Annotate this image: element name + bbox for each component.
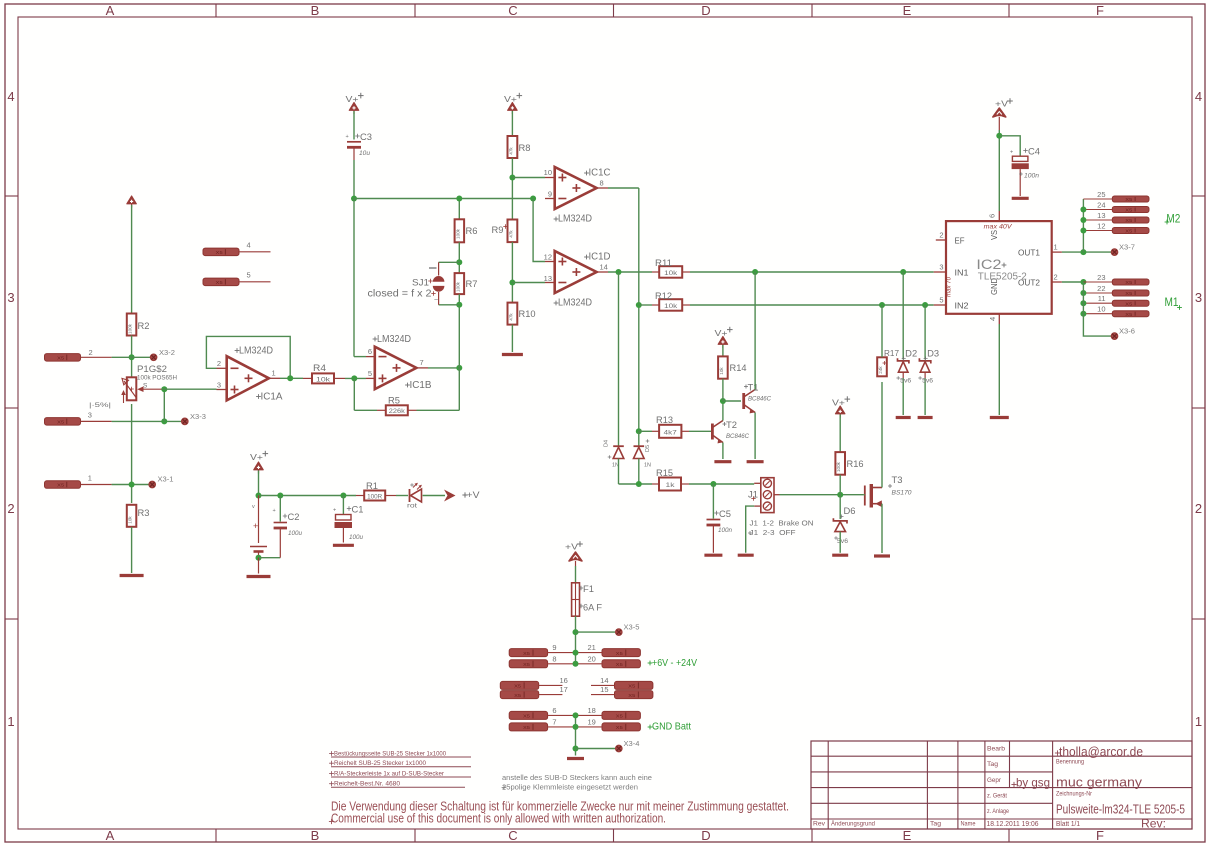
svg-text:100k POS65H: 100k POS65H [137,376,177,382]
svg-text:X3-6: X3-6 [1119,329,1135,336]
svg-text:2: 2 [89,348,93,357]
svg-text:2: 2 [217,359,221,368]
ground [990,416,1009,419]
svg-text:X5: X5 [57,356,64,362]
wire [575,566,577,583]
svg-text:9: 9 [548,190,552,199]
svg-text:24k: 24k [878,366,883,374]
wire [259,495,357,497]
connector pads X5 pins 7/19 [509,717,640,731]
svg-text:LM324D: LM324D [558,214,592,225]
potentiometer P1G$2 [89,364,177,409]
junction [456,259,462,265]
resistor R14 [718,356,746,378]
ground [704,554,722,557]
svg-text:T1: T1 [748,383,759,393]
svg-text:X5: X5 [1125,312,1132,318]
junction [573,746,579,752]
wire [618,459,620,485]
svg-text:A: A [106,828,115,843]
svg-text:X5: X5 [1125,301,1132,307]
connector pad X5 pin 13 [1083,211,1149,224]
svg-text:V+: V+ [715,328,728,338]
svg-text:C2: C2 [288,512,300,522]
svg-text:100k: 100k [455,228,460,239]
wire [881,305,883,357]
junction [616,269,622,275]
wire [280,377,303,379]
transistor T2 [712,420,749,443]
junction [636,428,642,434]
power symbol V+ (R8 rail) [504,93,522,114]
junction [573,661,579,667]
zener diode D2 [896,272,917,415]
svg-text:1: 1 [1195,714,1202,729]
connector pads X5 pins 16/14 [500,676,653,690]
connector pad X5 pin 4 [203,241,271,257]
svg-text:by gsg: by gsg [1016,776,1050,790]
wire [864,494,865,496]
resistor R15 [652,468,689,491]
power symbol +V (fuse rail) [565,541,583,561]
svg-text:47k: 47k [508,313,513,321]
wire [998,324,1000,415]
svg-text:VS: VS [990,230,999,240]
junction [720,398,726,404]
svg-text:X5: X5 [616,651,623,657]
connector pad X5 pin 5 [203,271,271,287]
wire [689,430,712,432]
resistor R10 [508,303,536,325]
wire [163,389,165,421]
wire [458,368,460,410]
svg-text:X5: X5 [628,684,635,690]
wire [428,367,459,369]
svg-text:22: 22 [1097,284,1105,293]
svg-text:16: 16 [560,676,568,685]
wire [881,504,883,553]
wire [131,205,133,314]
svg-text:6: 6 [552,706,556,715]
svg-text:1: 1 [272,369,276,378]
svg-text:7: 7 [552,717,556,726]
power symbol V+ (C3 rail) [346,93,364,114]
junction [129,482,135,488]
svg-text:10k: 10k [128,516,133,524]
svg-text:+: + [253,521,258,531]
wire [354,356,366,358]
svg-text:100k: 100k [455,281,460,292]
svg-text:Änderungsgrund: Änderungsgrund [831,820,875,828]
svg-text:X5: X5 [514,693,521,699]
junction [277,493,283,499]
capacitor C4 [1010,147,1040,197]
svg-text:R11: R11 [655,258,672,268]
capacitor C5 [707,509,733,553]
junction [509,175,515,181]
wire [1062,281,1084,283]
junction [509,280,515,286]
svg-text:100n: 100n [718,528,733,534]
svg-text:12: 12 [1097,222,1105,231]
svg-text:OUT2: OUT2 [1018,279,1041,288]
wire [423,495,445,497]
wire [575,561,577,566]
svg-text:3: 3 [217,381,221,390]
svg-text:10u: 10u [359,151,371,157]
note J1 jumper table [748,519,814,538]
svg-text:X5: X5 [1125,229,1132,235]
junction [256,493,262,499]
net stub X3-2 [150,350,175,360]
svg-text:IC1B: IC1B [410,380,432,391]
connector pad X5 pin 12 [1083,222,1149,235]
svg-text:25polige Klemmleiste eingesetz: 25polige Klemmleiste eingesetzt werden [502,783,638,792]
svg-text:C4: C4 [1028,147,1040,157]
wire [458,294,460,368]
wire [511,325,513,352]
svg-text:IC1D: IC1D [589,252,611,263]
svg-text:Gepr: Gepr [987,777,1002,784]
svg-text:J1 2-3 OFF: J1 2-3 OFF [750,528,796,537]
svg-text:10k: 10k [664,270,678,277]
ground [738,554,754,557]
junction [256,555,262,561]
wire [638,459,640,485]
svg-text:X5: X5 [514,684,521,690]
svg-text:20: 20 [588,654,596,663]
wire [353,160,355,199]
wire [112,484,149,486]
junction [1080,300,1086,306]
svg-text:17: 17 [560,685,568,694]
wire [353,111,355,140]
wire [353,378,355,410]
svg-text:B: B [311,3,320,18]
net stub X3-5 [616,625,640,636]
wire [619,483,653,485]
wire [131,336,133,378]
svg-text:8: 8 [600,179,604,188]
junction [900,269,906,275]
fuse F1 [572,583,603,616]
wire [162,388,217,390]
svg-text:X5: X5 [616,714,623,720]
junction [573,724,579,730]
svg-text:+: + [333,508,336,514]
svg-text:3: 3 [88,411,92,420]
svg-text:v: v [252,504,255,510]
svg-text:GND Batt: GND Batt [652,721,691,733]
svg-text:X5: X5 [523,651,530,657]
svg-text:4: 4 [988,317,997,321]
svg-text:IC2: IC2 [976,257,1001,272]
svg-text:X5: X5 [628,693,635,699]
wire [112,356,151,358]
svg-text:M1: M1 [1165,297,1179,309]
svg-text:rot: rot [407,504,417,510]
svg-text:Bearb: Bearb [987,746,1005,753]
op-amp IC1A [217,346,283,403]
ground [247,575,271,578]
junction [351,196,357,202]
wire [722,379,724,401]
svg-text:OUT1: OUT1 [1018,249,1041,258]
svg-text:T3: T3 [892,475,903,485]
svg-text:R9: R9 [492,225,504,235]
net stub X3-1 [149,477,174,488]
svg-text:X3-1: X3-1 [158,477,174,484]
ground [874,554,890,557]
svg-text:4: 4 [1195,89,1202,104]
wire [608,271,652,273]
svg-text:25: 25 [1097,190,1105,199]
wire [608,187,639,189]
svg-text:X3-7: X3-7 [1119,245,1135,252]
net label GND Batt [648,721,691,733]
junction [573,629,579,635]
junction [456,196,462,202]
wire [458,199,460,220]
svg-text:R8: R8 [519,143,531,153]
svg-text:18: 18 [588,706,596,715]
resistor R13 [652,415,689,438]
svg-text:F1: F1 [583,584,594,594]
svg-text:1: 1 [7,714,14,729]
svg-text:X5: X5 [1125,280,1132,286]
svg-text:R13: R13 [656,415,673,425]
svg-text:X5: X5 [1125,291,1132,297]
svg-text:13: 13 [544,274,552,283]
svg-text:4k7: 4k7 [664,429,677,436]
svg-text:Zeichnungs-Nr: Zeichnungs-Nr [1056,791,1093,798]
svg-text:18.12.2011 19:06: 18.12.2011 19:06 [987,819,1039,828]
connector pad X5 pin 24 [1083,201,1149,214]
svg-text:C: C [508,828,517,843]
svg-text:3: 3 [1195,290,1202,305]
svg-text:IC1C: IC1C [589,168,611,179]
svg-text:tholla@arcor.de: tholla@arcor.de [1059,745,1143,759]
junction [573,650,579,656]
svg-text:5v6: 5v6 [837,538,848,545]
svg-text:X5: X5 [1125,218,1132,224]
LED D1 [396,483,422,510]
zener diode D3 [918,305,939,415]
wire [999,136,1020,156]
svg-text:z. Gerät: z. Gerät [987,793,1007,800]
junction [351,375,357,381]
svg-text:X5: X5 [216,280,223,286]
svg-text:6: 6 [988,214,997,218]
svg-text:V+: V+ [346,94,359,104]
svg-text:LM324D: LM324D [377,334,411,345]
svg-text:+6V - +24V: +6V - +24V [652,657,697,669]
svg-text:X5: X5 [523,662,530,668]
wire [618,272,620,446]
net stub X3-4 [616,741,640,752]
svg-text:R4: R4 [313,363,326,373]
resistor R9 [492,220,518,243]
op-amp IC1B [366,334,432,391]
wire [258,558,260,574]
svg-text:X3-5: X3-5 [624,625,640,632]
wire [354,409,377,411]
junction [1080,279,1086,285]
ground [333,544,354,547]
ground [502,353,523,356]
svg-text:12: 12 [544,253,552,262]
resistor R2 [127,314,150,336]
wire [639,304,652,306]
diode D5 [634,439,652,468]
wire [639,430,652,432]
wire [259,557,281,559]
connector pad X5 pin 2 [45,348,112,362]
svg-text:R1: R1 [366,481,378,491]
wire [722,443,724,460]
svg-text:100u: 100u [288,531,303,537]
svg-text:J1 1-2 Brake ON: J1 1-2 Brake ON [750,519,814,528]
svg-text:R17: R17 [884,349,900,358]
power symbol V+ (battery rail) [250,451,268,474]
svg-text:19: 19 [588,717,596,726]
svg-text:C: C [508,3,517,18]
wire [881,382,883,488]
resistor R1 [356,481,396,501]
wire [511,111,513,136]
svg-text:X5: X5 [216,250,223,256]
transistor T1 [744,383,772,414]
net label M1 [1165,297,1182,310]
svg-text:23: 23 [1097,273,1105,282]
connector pad X5 pin 3 [45,411,112,426]
svg-text:z. Anlage: z. Anlage [987,808,1009,815]
IC U2 TLE5205-2 [934,211,1062,324]
svg-text:Rev: Rev [813,821,826,828]
svg-text:GND: GND [990,278,999,295]
power symbol +V (IC2 rail) [993,98,1013,117]
wire [723,400,741,402]
wire [533,199,545,262]
connector pads X5 pins 8/20 [509,654,640,668]
net arrow +V [444,490,480,502]
wire [576,748,616,750]
svg-text:C5: C5 [719,509,731,519]
svg-text:+: + [1010,150,1013,156]
svg-text:100R: 100R [367,494,383,500]
svg-text:BS170: BS170 [892,491,913,497]
svg-text:10: 10 [1097,305,1105,314]
svg-text:R10: R10 [519,309,536,319]
junction [1080,217,1086,223]
svg-text:D: D [701,828,710,843]
svg-text:Name: Name [961,821,976,828]
svg-text:47k: 47k [508,230,513,238]
junction [922,302,928,308]
junction [340,493,346,499]
svg-text:11: 11 [1098,294,1106,303]
svg-text:V+: V+ [832,398,845,408]
wire [689,483,754,485]
junction [129,354,135,360]
junction [636,302,642,308]
svg-text:10k: 10k [316,376,331,383]
svg-text:X5: X5 [1125,197,1132,203]
svg-text:R12: R12 [655,291,672,301]
svg-text:15: 15 [600,685,608,694]
svg-text:R15: R15 [656,468,673,478]
svg-text:7: 7 [420,358,424,367]
svg-text:4: 4 [247,241,251,250]
wire [690,271,934,273]
junction [1080,311,1086,317]
svg-text:BC846C: BC846C [726,434,750,440]
svg-text:R14: R14 [730,363,747,373]
svg-text:47k: 47k [508,147,513,155]
svg-text:6A F: 6A F [583,603,603,613]
svg-text:100u: 100u [349,535,364,541]
wire [512,177,545,179]
svg-text:X5: X5 [523,714,530,720]
junction [710,481,716,487]
wire [998,117,1000,130]
junction [456,302,462,308]
wire [354,198,533,200]
net label M2 [1165,214,1181,226]
svg-text:P1G$2: P1G$2 [137,364,167,375]
wire [112,420,182,422]
svg-text:21: 21 [588,643,596,652]
svg-text:3: 3 [7,290,14,305]
svg-text:X5: X5 [57,483,64,489]
zener diode D6 [833,506,855,545]
resistor R4 [303,363,345,383]
connector pad X5 pin 25 [1083,190,1149,203]
junction [1080,207,1086,213]
wire [998,130,1000,211]
wire [1062,251,1111,253]
svg-text:Benennung: Benennung [1056,759,1084,766]
wire [754,413,756,460]
svg-text:24: 24 [1097,201,1105,210]
ground [896,416,911,419]
copyright note line 2 [329,812,666,826]
ground [1012,197,1029,200]
svg-text:5v6: 5v6 [922,379,934,385]
svg-text:C1: C1 [352,505,364,515]
junction [879,302,885,308]
wire [638,188,640,431]
svg-text:closed = f x 2: closed = f x 2 [368,289,432,300]
junction [996,133,1002,139]
svg-text:EF: EF [955,237,965,246]
capacitor C1 [333,496,364,543]
svg-text:R7: R7 [466,279,478,289]
svg-text:2: 2 [1195,501,1202,516]
wire [839,532,841,553]
svg-text:V+: V+ [250,452,263,462]
svg-text:2: 2 [7,501,14,516]
svg-text:5: 5 [939,296,943,305]
svg-text:X5: X5 [57,420,64,426]
junction [1080,228,1086,234]
junction [161,386,167,392]
net stub X3-6 [1111,329,1135,340]
svg-text:D2: D2 [905,349,917,359]
svg-text:D5: D5 [645,445,651,452]
wire [576,631,616,633]
svg-text:14: 14 [600,676,608,685]
